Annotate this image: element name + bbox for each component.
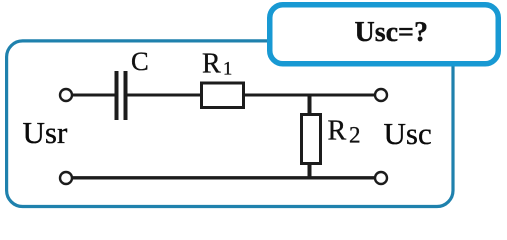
outer frame box [7,41,453,207]
svg-text:1: 1 [223,60,232,80]
capacitor C [115,71,128,120]
wire bottom [70,176,377,179]
svg-text:R: R [202,49,221,80]
terminal top-left [60,89,72,101]
wire junction stub top [308,95,312,114]
svg-text:C: C [131,46,149,76]
svg-text:R: R [328,116,347,147]
terminal bottom-right [375,172,387,184]
resistor R1 [202,83,244,108]
wire capacitor to R1 [128,94,202,97]
svg-text:Usc=?: Usc=? [355,17,429,48]
svg-text:2: 2 [349,123,361,148]
terminal top-right [375,89,387,101]
svg-text:Usc: Usc [384,116,432,151]
wire junction stub bottom [308,163,312,178]
resistor R2 [302,115,321,164]
svg-text:Usr: Usr [23,115,68,150]
callout box Usc=? [270,5,499,64]
terminal bottom-left [60,172,72,184]
wire top-left segment [70,94,115,97]
wire R1 to right terminal [245,94,377,97]
